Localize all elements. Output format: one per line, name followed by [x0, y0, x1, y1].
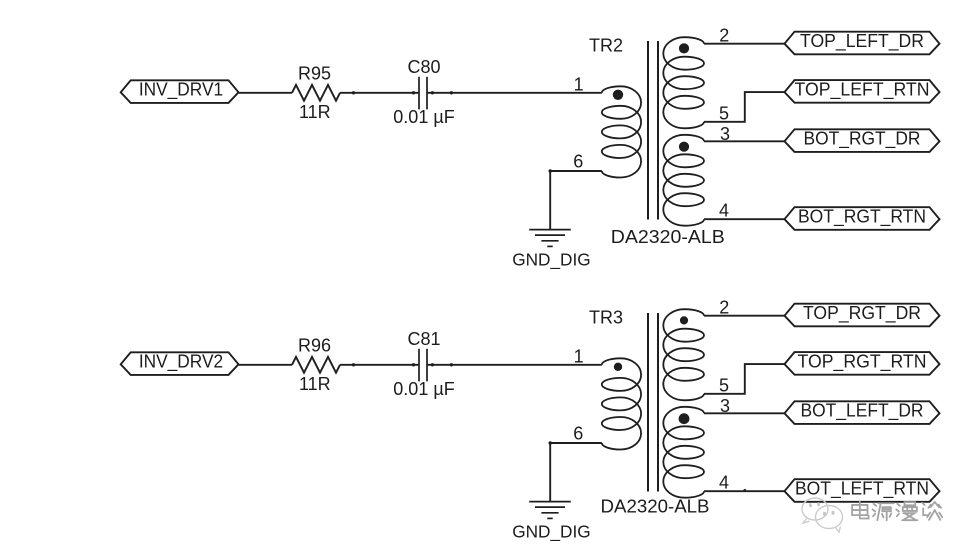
- watermark logo: [802, 498, 843, 532]
- svg-text:GND_DIG: GND_DIG: [512, 522, 591, 543]
- phase dot sec bottom: [679, 142, 689, 152]
- wire pin3: [704, 140, 785, 142]
- svg-text:11R: 11R: [299, 102, 331, 122]
- svg-text:TOP_LEFT_RTN: TOP_LEFT_RTN: [795, 80, 930, 101]
- wire pin5: [704, 92, 785, 122]
- wire pin2: [704, 43, 785, 45]
- port BOT_RGT_RTN: [785, 207, 940, 230]
- wire: [239, 364, 293, 366]
- port INV_DRV2: [121, 352, 239, 375]
- svg-text:1: 1: [574, 346, 584, 366]
- port TOP_LEFT_DR: [785, 32, 940, 55]
- svg-text:R96: R96: [298, 335, 331, 355]
- port TOP_RGT_RTN: [785, 352, 940, 375]
- secondary winding top: [663, 309, 704, 400]
- svg-text:TOP_RGT_RTN: TOP_RGT_RTN: [798, 352, 927, 373]
- svg-text:1: 1: [574, 74, 584, 94]
- svg-text:C81: C81: [407, 329, 440, 349]
- port BOT_LEFT_DR: [785, 401, 940, 424]
- svg-text:0.01 µF: 0.01 µF: [393, 379, 454, 399]
- junction dots: [352, 91, 453, 94]
- ground GND_DIG: [529, 502, 571, 519]
- svg-text:DA2320-ALB: DA2320-ALB: [611, 227, 725, 247]
- phase dot sec top: [680, 316, 688, 324]
- resistor R95 11R: [292, 85, 340, 101]
- svg-text:4: 4: [719, 473, 729, 493]
- svg-text:3: 3: [720, 124, 730, 144]
- svg-text:2: 2: [719, 26, 729, 46]
- resistor R96 11R: [292, 357, 340, 373]
- svg-text:3: 3: [720, 396, 730, 416]
- wire: [340, 364, 419, 366]
- wire pin4: [704, 218, 785, 220]
- svg-text:GND_DIG: GND_DIG: [512, 250, 591, 271]
- svg-text:DA2320-ALB: DA2320-ALB: [601, 496, 710, 516]
- svg-text:INV_DRV2: INV_DRV2: [139, 352, 223, 373]
- svg-text:TR2: TR2: [589, 35, 623, 55]
- svg-text:5: 5: [719, 376, 729, 396]
- wire pin6: [550, 443, 602, 502]
- svg-text:BOT_LEFT_DR: BOT_LEFT_DR: [801, 401, 924, 422]
- wire: [239, 92, 293, 94]
- phase dot sec bottom: [679, 413, 690, 424]
- wire pin5: [704, 364, 785, 394]
- svg-text:INV_DRV1: INV_DRV1: [139, 80, 223, 101]
- svg-text:2: 2: [719, 298, 729, 318]
- wire: [427, 364, 602, 366]
- wire pin4: [704, 490, 785, 492]
- svg-text:6: 6: [573, 424, 583, 444]
- wire: [340, 92, 419, 94]
- svg-text:BOT_RGT_RTN: BOT_RGT_RTN: [798, 207, 926, 228]
- phase dot sec top: [679, 43, 689, 53]
- svg-text:4: 4: [719, 201, 729, 221]
- svg-text:TOP_RGT_DR: TOP_RGT_DR: [803, 303, 921, 324]
- pin-end dot: [743, 489, 746, 492]
- secondary winding top: [663, 37, 704, 128]
- core: [647, 41, 649, 220]
- svg-text:TOP_LEFT_DR: TOP_LEFT_DR: [800, 31, 924, 52]
- port TOP_RGT_DR: [785, 304, 940, 327]
- secondary winding bottom: [663, 407, 704, 498]
- svg-text:11R: 11R: [299, 374, 331, 394]
- svg-text:R95: R95: [298, 63, 331, 83]
- core: [647, 313, 649, 492]
- svg-text:TR3: TR3: [589, 307, 623, 327]
- svg-text:BOT_LEFT_RTN: BOT_LEFT_RTN: [795, 479, 929, 500]
- port TOP_LEFT_RTN: [785, 80, 940, 103]
- port INV_DRV1: [121, 80, 239, 103]
- secondary winding bottom: [663, 135, 704, 226]
- port BOT_RGT_DR: [785, 129, 940, 152]
- wire pin6: [550, 171, 602, 230]
- primary winding: [602, 86, 641, 177]
- svg-text:C80: C80: [407, 57, 440, 77]
- watermark text: [852, 502, 942, 521]
- junction dots: [352, 363, 453, 366]
- svg-text:0.01 µF: 0.01 µF: [393, 107, 454, 127]
- primary winding: [602, 358, 641, 449]
- svg-text:5: 5: [719, 104, 729, 124]
- port BOT_LEFT_RTN: [785, 479, 940, 502]
- svg-text:6: 6: [573, 152, 583, 172]
- phase dot primary: [613, 90, 623, 100]
- wire pin3: [704, 412, 785, 414]
- capacitor C81 0.01 µF: [418, 349, 420, 382]
- wire: [427, 92, 602, 94]
- capacitor C80 0.01 µF: [418, 77, 420, 110]
- wire pin2: [704, 315, 785, 317]
- ground GND_DIG: [529, 230, 571, 247]
- phase dot primary: [614, 363, 622, 371]
- svg-text:BOT_RGT_DR: BOT_RGT_DR: [804, 129, 921, 150]
